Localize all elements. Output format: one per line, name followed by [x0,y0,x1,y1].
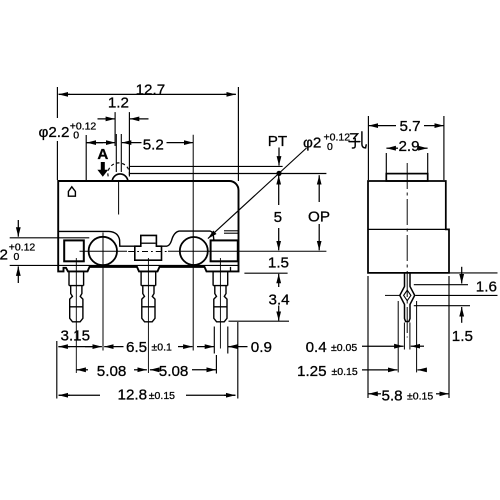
svg-text:5.8: 5.8 [382,388,403,405]
dim 1.2 arrows [98,118,116,120]
dim 1.6/1.5 arrows [461,267,463,284]
dim 5.7 [369,125,397,127]
dim phi2.2 arrows [86,142,115,144]
dim 3.4 line [278,274,280,287]
ext 5.08 right [215,355,217,374]
svg-text:φ2.2: φ2.2 [39,124,70,141]
ext phi2.2 left [85,135,87,180]
plunger pin sides [115,134,117,172]
side view body outline [368,181,449,273]
svg-text:1.25: 1.25 [297,363,327,380]
ext 1.2 left [114,112,116,146]
svg-text:±0.1: ±0.1 [152,341,173,353]
free position line [130,165,283,167]
dim 5.8 [368,393,381,395]
ext 5.7 [367,116,369,180]
dim 1.25 [362,369,397,371]
dim 5.2 arrows [122,142,142,144]
A pointer arrow (solid) [97,162,108,177]
slot top line [10,237,90,239]
svg-text:5: 5 [274,209,282,226]
left slot square [64,240,84,261]
svg-text:12.8: 12.8 [118,387,148,404]
dim 5.08 right arrows [150,369,160,371]
side view button [386,174,427,181]
dim 5 line [278,175,280,205]
dim OP line [318,175,320,202]
svg-text:0: 0 [327,141,333,153]
dim 6.5 arrows [104,346,123,348]
svg-text:PT: PT [268,133,287,150]
hidden hole circle (dashed) [108,163,130,177]
interior seam contour right [162,231,214,246]
terminal centerlines [75,258,77,373]
kink hole diamond [404,290,411,301]
svg-text:OP: OP [308,208,330,225]
svg-text:φ2: φ2 [303,135,321,152]
hole crosshair horizontals [80,250,128,252]
svg-text:0.9: 0.9 [251,339,272,356]
svg-text:A: A [97,146,108,163]
kink crosshair left [385,294,400,296]
dim 12.7 line [59,93,71,95]
side view seam line [368,228,446,230]
dim 0.4 [362,345,404,347]
dim 5.08 left arrows [76,369,88,371]
svg-text:3.15: 3.15 [61,328,91,345]
molded triangle mark [68,187,75,196]
dim 2.9 [386,147,398,149]
left mounting hole [89,237,117,265]
ext 0.4 [403,323,405,350]
svg-text:±0.05: ±0.05 [331,342,357,354]
ext 12.7 left (dashed around text) [56,87,58,118]
ext 0.9 lines [213,327,215,354]
dim 3.15 arrows [58,346,70,348]
hole kanji glyph [349,132,366,148]
switch body outline (front view) [58,181,238,271]
side view terminal with kink [400,273,415,321]
svg-text:1.2: 1.2 [108,94,129,111]
seating line [244,272,287,274]
PLACEHOLDER-DIMS2 [362,116,498,398]
plunger dome arc [112,174,128,181]
svg-text:5.7: 5.7 [399,118,420,135]
PT arrow [278,148,280,166]
leader line to hole [208,148,307,239]
terminal 3 [213,271,228,321]
terminal 2 [141,271,156,321]
ext 5.8 [367,276,369,398]
side view centerline [406,163,408,338]
plunger centerline into body [118,182,120,215]
right mounting hole [180,237,208,265]
ref line kink bottom [414,305,470,307]
svg-text:3.4: 3.4 [269,291,290,308]
svg-text:1.6: 1.6 [476,279,497,296]
terminal 1 [69,271,84,321]
terminal end line [229,320,290,322]
dim 2 arrows (left side) [17,220,19,237]
svg-text:0: 0 [73,129,79,141]
ext 1.2 right [128,112,130,176]
svg-text:±0.15: ±0.15 [332,366,358,378]
svg-text:±0.15: ±0.15 [149,390,175,402]
svg-text:0: 0 [14,251,20,263]
ref line body bottom ext [449,272,498,274]
svg-text:12.7: 12.7 [136,82,166,99]
svg-text:6.5: 6.5 [126,339,147,356]
right slot square [211,240,238,261]
button centerline dashes [128,251,168,253]
svg-text:0.4: 0.4 [306,339,327,356]
svg-text:5.08: 5.08 [159,363,189,380]
common terminal button [135,235,162,260]
ref line kink center ext [416,294,498,296]
dim 0.9 arrows [197,346,214,348]
button step line [142,242,156,244]
ref line kink top [414,284,468,286]
svg-text:5.08: 5.08 [97,363,127,380]
slot bottom line [10,264,239,266]
seam lines near right edge [224,230,238,232]
bottom edge jog [230,267,232,272]
hole crosshair verticals / extension lines [102,233,104,351]
ext 12.8 left [56,341,58,399]
interior seam contour left [58,231,135,246]
svg-text:1.5: 1.5 [452,328,473,345]
svg-text:2.9: 2.9 [398,138,419,155]
svg-text:±0.15: ±0.15 [407,391,433,403]
svg-text:1.5: 1.5 [268,255,289,272]
svg-text:2: 2 [0,246,8,263]
ext 2.9 [385,153,387,173]
ext 12.7 right [237,87,239,181]
ext 1.25 [397,301,399,372]
leader dot [276,171,281,176]
svg-text:5.2: 5.2 [143,137,164,154]
ext 12.8 right [237,322,239,399]
PLACEHOLDER-RV2 [0,82,497,405]
dim 12.8 line [59,394,70,396]
operating position line [129,173,326,175]
